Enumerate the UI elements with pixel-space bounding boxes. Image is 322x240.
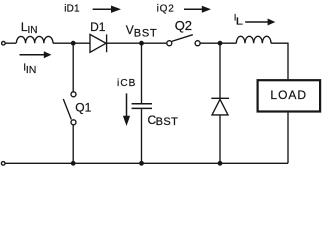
wire: top node to diode cathode [219, 43, 221, 98]
wire: LOAD bottom to ground rail [287, 113, 289, 164]
current arrow IL [245, 21, 268, 23]
svg-text:iQ2: iQ2 [157, 3, 175, 14]
wire: terminal to LIN [5, 42, 16, 44]
wire: Q1 to bottom rail [72, 125, 74, 164]
current arrow iCB [126, 93, 128, 116]
svg-text:CBST: CBST [148, 113, 179, 128]
wire: diode anode to bottom rail [219, 115, 221, 163]
svg-text:Q1: Q1 [75, 100, 91, 114]
switch Q1 [71, 92, 76, 97]
svg-text:IL: IL [234, 12, 243, 27]
input terminal (bottom left) [1, 162, 5, 166]
node: Q1 bottom junction [71, 161, 76, 166]
node: CBST bottom junction [139, 161, 144, 166]
node: LIN / D1 / Q1 junction [71, 41, 76, 46]
inductor LIN [16, 36, 53, 43]
node: Q2 / diode / IL junction [218, 41, 223, 46]
svg-text:D1: D1 [90, 20, 106, 34]
switch Q2 [167, 41, 172, 46]
node: diode bottom junction [218, 161, 223, 166]
node VBST [139, 41, 144, 46]
current arrow IIN [20, 54, 45, 56]
svg-text:iCB: iCB [117, 78, 136, 89]
wire: top rail to Q1 [72, 43, 74, 92]
svg-text:LOAD: LOAD [270, 88, 307, 102]
wire: VBST node to CBST [141, 43, 143, 103]
wire: IL to LOAD top [271, 43, 288, 79]
current arrow iD1 [93, 8, 112, 10]
bottom rail wire [5, 162, 288, 164]
wire: CBST to bottom rail [141, 109, 143, 163]
diode D1 [90, 34, 107, 52]
svg-text:IIN: IIN [23, 62, 36, 76]
current arrow iQ2 [184, 8, 202, 10]
load box [258, 80, 321, 111]
wire: LIN to D1 anode [53, 42, 90, 44]
capacitor CBST [132, 104, 152, 109]
svg-text:Q2: Q2 [175, 18, 192, 33]
wire: Q2 to IL inductor [200, 42, 236, 44]
inductor (IL path) [236, 36, 271, 43]
input terminal (top left) [2, 41, 6, 45]
diode (freewheeling, pointing up) [211, 98, 229, 115]
wire: D1 cathode to Q2 [107, 42, 167, 44]
svg-text:iD1: iD1 [64, 4, 80, 15]
